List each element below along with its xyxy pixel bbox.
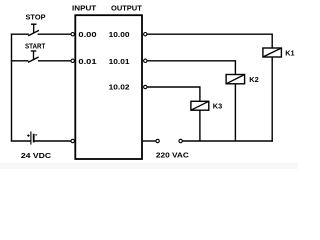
svg-text:STOP: STOP <box>26 12 46 21</box>
pushbutton STOP (NC) <box>28 24 39 36</box>
output terminal 10.00 <box>144 33 147 36</box>
relay coil K1 <box>263 48 282 57</box>
battery 24 VDC <box>27 131 37 144</box>
svg-text:10.02: 10.02 <box>109 83 130 92</box>
svg-text:10.00: 10.00 <box>109 30 130 39</box>
svg-text:START: START <box>25 41 46 50</box>
wire: left rail <box>11 34 13 141</box>
output terminal 10.01 <box>144 59 147 62</box>
wire: K3 to AC rail <box>199 110 201 141</box>
relay coil K3 <box>191 101 209 110</box>
AC source terminal right <box>179 139 182 142</box>
wire: 10.01 to K2 <box>147 60 235 74</box>
wire: battery to COM terminal <box>35 140 72 142</box>
AC source terminal left <box>156 139 159 142</box>
svg-text:0.01: 0.01 <box>78 57 97 66</box>
svg-text:K2: K2 <box>249 75 258 84</box>
svg-text:OUTPUT: OUTPUT <box>111 4 142 13</box>
svg-text:K1: K1 <box>285 49 295 58</box>
input COM terminal <box>71 139 74 142</box>
pushbutton START (NO) <box>28 51 39 62</box>
wire: 10.00 to K1 <box>147 34 272 49</box>
PLC I/O box <box>75 15 142 159</box>
input terminal 0.00 <box>71 33 74 36</box>
svg-text:10.01: 10.01 <box>109 57 131 66</box>
wire: output COM to AC terminal <box>143 140 156 142</box>
svg-text:INPUT: INPUT <box>72 4 97 13</box>
input terminal 0.01 <box>71 59 74 62</box>
wire: 10.02 to K3 <box>147 86 200 101</box>
relay coil K2 <box>226 75 245 84</box>
output terminal 10.02 <box>144 85 147 88</box>
svg-text:0.00: 0.00 <box>78 30 96 39</box>
wire: K1 to AC rail <box>271 57 273 142</box>
wire: battery row left <box>11 140 31 142</box>
wire: START row (rail to input 0.01) <box>11 60 71 62</box>
svg-text:24 VDC: 24 VDC <box>21 151 52 160</box>
wire: K2 to AC rail <box>234 84 236 141</box>
wire: STOP row (rail to input 0.00) <box>11 33 71 35</box>
wire: AC bottom rail <box>182 140 273 142</box>
svg-text:K3: K3 <box>213 102 222 111</box>
svg-text:220 VAC: 220 VAC <box>156 150 189 159</box>
